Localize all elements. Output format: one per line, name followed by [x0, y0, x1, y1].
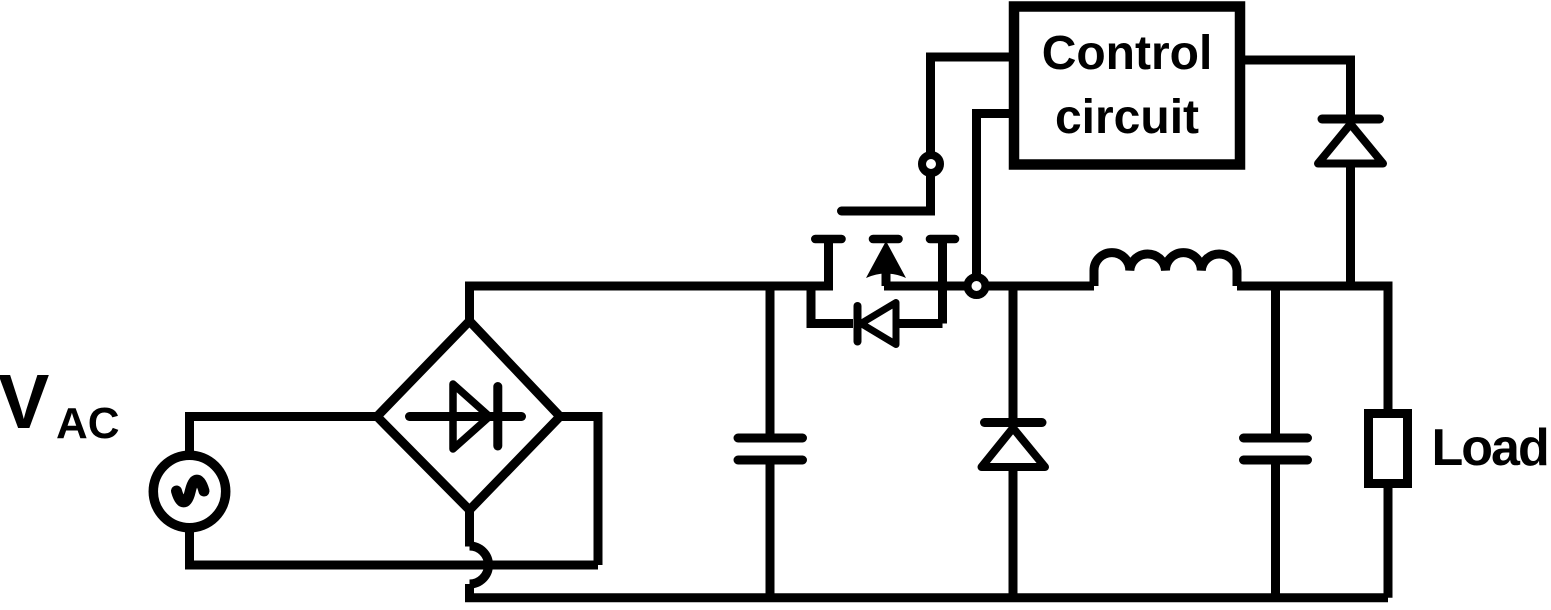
capacitor C1 bottom lead: [766, 460, 775, 598]
body diode triangle: [861, 303, 896, 345]
gate terminal circle: [922, 155, 940, 173]
body diode cathode bar: [854, 306, 862, 342]
control circuit box U1: [1014, 7, 1240, 165]
diode D2 triangle: [1318, 124, 1383, 164]
transistor Q1 drain lead: [824, 241, 833, 291]
capacitor C2 bottom lead: [1271, 460, 1280, 598]
wire gate drive from control: [931, 57, 1010, 152]
wire AC top lead: [190, 417, 376, 458]
bridge inner diode triangle: [453, 384, 490, 449]
wire bridge right vertex return: [560, 417, 598, 566]
transistor Q1 source lead: [882, 272, 891, 286]
diode D1 triangle: [982, 428, 1046, 467]
svg-text:circuit: circuit: [1055, 91, 1199, 144]
wire bridge top to main rail: [470, 286, 829, 321]
bridge inner diode cathode bar: [493, 387, 502, 447]
label VAC: [0, 359, 120, 448]
wire rail after inductor: [1237, 286, 1388, 409]
wire sense from control: [977, 114, 1010, 281]
label Load: [1432, 419, 1548, 477]
capacitor C1 plates: [738, 438, 803, 460]
wire main rail right of Q1: [884, 282, 1094, 291]
transistor Q1 bar3 lead: [938, 241, 947, 324]
body diode loop left: [811, 286, 853, 324]
wire load bottom lead: [1384, 488, 1393, 598]
diode D1 bottom lead: [1009, 467, 1018, 598]
wire AC bottom lead / return: [190, 526, 599, 565]
wire control to feedback diode: [1240, 60, 1351, 119]
capacitor C1 top lead: [766, 286, 775, 438]
body diode loop right: [896, 319, 943, 328]
svg-text:Control: Control: [1042, 27, 1213, 80]
wire gate lead: [842, 176, 931, 211]
svg-text:Load: Load: [1432, 419, 1548, 477]
capacitor C2 plates: [1244, 438, 1308, 460]
transistor Q1 substrate arrow: [866, 241, 906, 278]
diode D1 top lead: [1009, 286, 1018, 423]
diode D2 cathode bar: [1322, 115, 1380, 124]
capacitor C2 top lead: [1271, 286, 1280, 438]
wire bridge bottom vertex: [465, 510, 474, 547]
load resistor body: [1369, 414, 1408, 484]
inductor L1: [1094, 253, 1237, 286]
wire D2 anode to rail: [1346, 164, 1355, 287]
svg-text:AC: AC: [56, 399, 120, 448]
bridge inner diode lead: [410, 412, 522, 421]
transistor Q1 channel bars: [815, 235, 955, 244]
AC source V1: [153, 455, 225, 527]
bridge rectifier BR1 diamond: [377, 321, 560, 510]
svg-text:V: V: [0, 359, 49, 445]
wire bottom rail: [470, 584, 1389, 598]
node switch-node circle: [968, 277, 986, 295]
wire hop over return wire: [470, 546, 489, 584]
diode D1 cathode bar: [985, 418, 1043, 427]
